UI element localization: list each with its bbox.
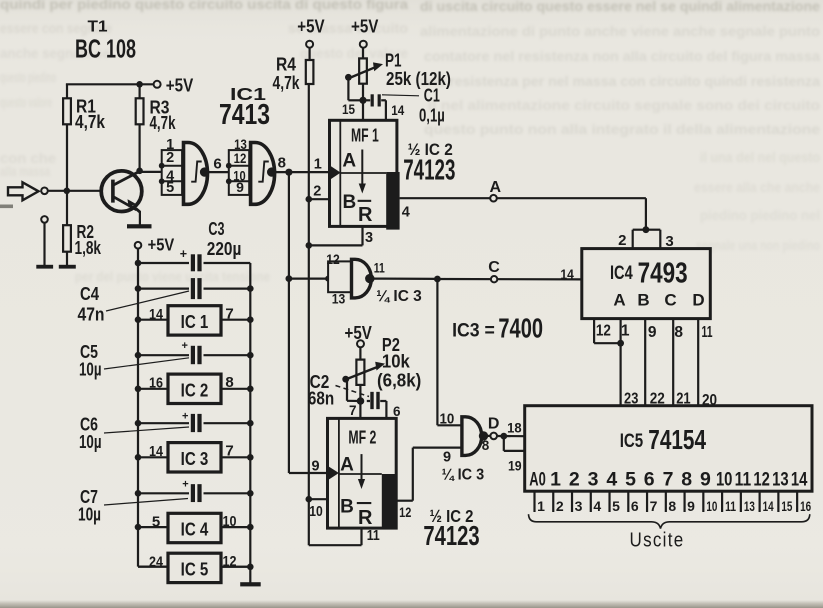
svg-text:10: 10: [706, 498, 717, 514]
svg-text:R: R: [358, 507, 373, 529]
svg-text:12: 12: [399, 504, 411, 520]
svg-text:9: 9: [687, 498, 695, 514]
svg-text:5: 5: [166, 180, 174, 196]
svg-text:+: +: [180, 247, 187, 261]
svg-text:10: 10: [440, 412, 455, 428]
svg-text:14: 14: [791, 469, 808, 491]
svg-text:10: 10: [716, 469, 733, 491]
svg-text:8: 8: [668, 498, 676, 514]
svg-text:11: 11: [702, 324, 713, 341]
svg-text:+5V: +5V: [148, 234, 175, 254]
svg-text:A0: A0: [529, 469, 546, 491]
svg-text:7400: 7400: [498, 313, 543, 344]
svg-text:14: 14: [391, 103, 404, 118]
svg-text:16: 16: [800, 498, 811, 514]
svg-text:IC 4: IC 4: [181, 519, 209, 540]
svg-text:1: 1: [314, 157, 322, 173]
svg-text:24: 24: [149, 554, 164, 571]
svg-text:5: 5: [625, 469, 636, 491]
svg-text:3: 3: [365, 230, 373, 246]
svg-text:6: 6: [213, 156, 221, 173]
svg-text:4,7k: 4,7k: [273, 72, 301, 93]
svg-text:9: 9: [311, 458, 319, 474]
svg-text:5: 5: [152, 514, 160, 531]
svg-text:7: 7: [225, 306, 233, 323]
svg-text:2: 2: [556, 498, 564, 514]
svg-text:1: 1: [537, 498, 545, 514]
svg-text:2: 2: [166, 150, 174, 166]
svg-text:P1: P1: [385, 49, 402, 70]
svg-text:7: 7: [225, 443, 233, 460]
svg-text:+5V: +5V: [166, 75, 194, 96]
svg-text:+: +: [182, 340, 188, 352]
svg-text:18: 18: [507, 419, 522, 435]
svg-text:D: D: [692, 290, 704, 309]
svg-text:7: 7: [349, 403, 357, 418]
svg-text:16: 16: [149, 375, 163, 392]
svg-text:piedino piedino nel: piedino piedino nel: [700, 208, 820, 223]
svg-text:9: 9: [443, 449, 451, 465]
svg-text:11: 11: [735, 469, 752, 491]
svg-text:12: 12: [326, 251, 340, 267]
svg-text:D: D: [488, 416, 500, 433]
svg-text:9: 9: [700, 469, 711, 491]
svg-text:il una del nel questo: il una del nel questo: [700, 150, 820, 165]
svg-text:13: 13: [332, 290, 346, 306]
svg-text:+5V: +5V: [345, 322, 373, 343]
svg-text:6: 6: [631, 498, 639, 514]
svg-text:IC3 =: IC3 =: [452, 320, 495, 341]
svg-text:12: 12: [234, 150, 247, 166]
svg-text:15: 15: [781, 498, 792, 514]
svg-text:6: 6: [644, 469, 655, 491]
svg-text:19: 19: [508, 458, 522, 474]
svg-text:C: C: [664, 290, 676, 309]
svg-text:IC4: IC4: [610, 263, 633, 284]
svg-text:B: B: [343, 192, 357, 213]
svg-text:3: 3: [588, 469, 599, 491]
svg-text:alimentazione di punto anche v: alimentazione di punto anche viene anche…: [420, 23, 820, 39]
svg-text:74123: 74123: [423, 520, 479, 551]
svg-text:MF 1: MF 1: [351, 125, 379, 145]
svg-text:1,8k: 1,8k: [75, 237, 102, 258]
svg-text:7: 7: [650, 498, 658, 514]
svg-text:IC 1: IC 1: [181, 311, 209, 332]
svg-text:14: 14: [560, 266, 574, 282]
svg-text:4,7k: 4,7k: [75, 111, 106, 132]
svg-text:8: 8: [225, 374, 233, 391]
svg-text:8: 8: [278, 155, 286, 172]
svg-text:2: 2: [618, 232, 626, 249]
svg-text:Uscite: Uscite: [630, 530, 685, 552]
svg-text:IC5: IC5: [620, 431, 644, 452]
svg-text:il nel alimentazione circuito: il nel alimentazione circuito segnale so…: [428, 97, 820, 113]
svg-text:10k: 10k: [382, 351, 411, 372]
svg-text:10µ: 10µ: [79, 360, 102, 380]
svg-text:MF 2: MF 2: [348, 427, 376, 447]
svg-text:+: +: [182, 478, 188, 490]
svg-text:1: 1: [621, 323, 630, 340]
svg-text:10µ: 10µ: [78, 505, 101, 525]
svg-text:13: 13: [744, 498, 755, 514]
svg-text:B: B: [340, 496, 354, 517]
svg-text:A: A: [342, 150, 356, 171]
svg-text:25k (12k): 25k (12k): [386, 69, 451, 89]
svg-text:10: 10: [223, 513, 237, 530]
svg-text:IC 3: IC 3: [181, 448, 209, 469]
svg-text:7413: 7413: [219, 99, 270, 131]
svg-text:3: 3: [575, 498, 583, 514]
svg-text:IC 5: IC 5: [181, 558, 209, 579]
svg-text:segnale una non piedino: segnale una non piedino: [696, 238, 820, 253]
svg-text:+5V: +5V: [351, 16, 379, 37]
svg-text:questo punto non alla integrat: questo punto non alla integrato il della…: [424, 121, 820, 137]
svg-text:9: 9: [236, 179, 244, 195]
svg-text:15: 15: [342, 102, 355, 117]
svg-text:1: 1: [550, 469, 561, 491]
svg-text:11: 11: [374, 260, 385, 276]
svg-text:IC 2: IC 2: [181, 379, 209, 400]
svg-text:68n: 68n: [308, 388, 334, 408]
svg-text:4: 4: [606, 469, 617, 491]
svg-text:per del punto viene uscita ten: per del punto viene uscita tensione: [75, 269, 270, 284]
svg-text:12: 12: [223, 553, 237, 570]
svg-text:8: 8: [674, 324, 683, 341]
svg-text:R: R: [358, 204, 373, 226]
svg-text:14: 14: [763, 498, 774, 514]
svg-text:4: 4: [593, 498, 601, 514]
svg-text:essere alla che anche: essere alla che anche: [694, 180, 820, 195]
svg-text:A: A: [340, 455, 354, 476]
svg-text:C1: C1: [424, 85, 440, 105]
svg-text:7: 7: [663, 469, 674, 491]
svg-text:una resistenza per nel massa c: una resistenza per nel massa con circuit…: [420, 73, 820, 89]
svg-text:+5V: +5V: [297, 16, 325, 37]
svg-text:11: 11: [367, 528, 380, 544]
svg-text:C: C: [488, 259, 500, 276]
svg-text:12: 12: [753, 469, 770, 491]
svg-text:8: 8: [681, 469, 692, 491]
svg-text:A: A: [613, 290, 625, 309]
svg-text:BC 108: BC 108: [75, 34, 136, 64]
svg-text:di uscita circuito questo esse: di uscita circuito questo essere nel se …: [420, 0, 820, 14]
svg-text:9: 9: [648, 324, 657, 341]
svg-text:10: 10: [309, 504, 323, 520]
svg-text:5: 5: [612, 498, 620, 514]
svg-text:4: 4: [402, 205, 410, 221]
svg-text:¼ IC 3: ¼ IC 3: [442, 467, 485, 484]
svg-text:+: +: [182, 411, 188, 423]
svg-text:questo piedino: questo piedino: [0, 70, 56, 85]
svg-text:C3: C3: [208, 219, 224, 239]
svg-text:7493: 7493: [638, 258, 688, 290]
svg-text:74123: 74123: [403, 155, 455, 187]
svg-text:11: 11: [725, 498, 736, 514]
svg-text:2: 2: [569, 469, 580, 491]
svg-text:13: 13: [772, 469, 789, 491]
svg-text:2: 2: [313, 183, 321, 199]
svg-text:B: B: [637, 290, 649, 309]
svg-text:8: 8: [482, 438, 490, 453]
svg-text:questo valore: questo valore: [0, 95, 52, 110]
svg-text:14: 14: [149, 306, 164, 323]
svg-text:C4: C4: [80, 284, 99, 304]
svg-text:220µ: 220µ: [207, 239, 242, 259]
svg-text:A: A: [490, 179, 502, 196]
svg-text:4,7k: 4,7k: [150, 112, 177, 133]
svg-text:14: 14: [149, 443, 164, 460]
svg-text:47n: 47n: [78, 304, 105, 324]
svg-text:0,1µ: 0,1µ: [419, 105, 445, 125]
svg-text:alla massa: alla massa: [0, 164, 50, 179]
svg-text:12: 12: [596, 323, 611, 340]
svg-text:10µ: 10µ: [79, 432, 102, 452]
svg-text:¼ IC 3: ¼ IC 3: [376, 288, 422, 305]
svg-text:contatore nel resistenza non a: contatore nel resistenza non alla circui…: [424, 48, 820, 64]
svg-text:74154: 74154: [648, 424, 706, 455]
svg-text:quindi per piedino questo circ: quindi per piedino questo circuito uscit…: [0, 0, 408, 12]
svg-text:(6,8k): (6,8k): [377, 370, 421, 390]
